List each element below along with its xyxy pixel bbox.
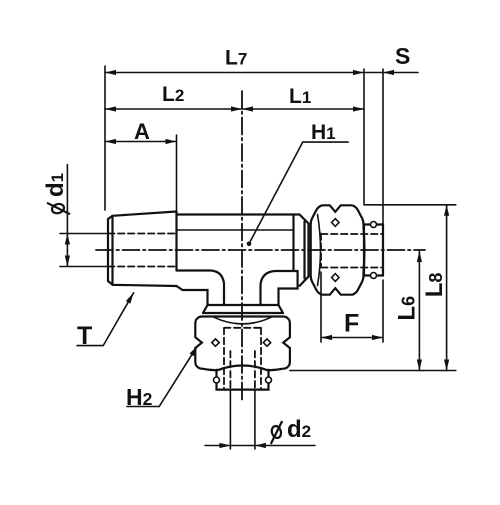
dimension L8 line bbox=[446, 205, 448, 371]
horizontal centerline (run axis) bbox=[96, 249, 425, 251]
leader line T bbox=[77, 293, 134, 346]
right sleeve (tube stop) bbox=[364, 225, 383, 276]
arrow L2 left bbox=[105, 106, 116, 111]
arrow A left bbox=[105, 139, 116, 144]
arrow F left bbox=[321, 335, 332, 340]
hidden bore lines (run, phi d1) bbox=[108, 234, 177, 267]
svg-text:T: T bbox=[77, 322, 92, 350]
bottom sleeve (tube stop) bbox=[217, 370, 269, 390]
dimension L2 L1 line bbox=[105, 108, 364, 110]
svg-text:L1: L1 bbox=[289, 85, 311, 108]
arrow L8 up bbox=[444, 205, 449, 216]
dimension F line bbox=[321, 272, 383, 342]
nut H1 hidden tube-stop face bbox=[320, 234, 322, 267]
extension line left (x=105) bbox=[104, 66, 106, 210]
svg-text:A: A bbox=[134, 119, 150, 144]
svg-text:L2: L2 bbox=[162, 83, 184, 106]
branch engagement (bottom port thread) bbox=[203, 305, 283, 313]
dimension L7 and S line bbox=[105, 72, 418, 74]
phi d1 dimension lines bbox=[60, 165, 108, 267]
bottom reference line bbox=[290, 370, 456, 372]
collar bottom (left of branch) bbox=[177, 286, 208, 305]
arrow L1 right bbox=[353, 106, 364, 111]
arrow F right bbox=[372, 335, 383, 340]
nut H2 (bottom compression nut) bbox=[195, 317, 290, 371]
label phi d2 bbox=[270, 416, 311, 444]
svg-text:H1: H1 bbox=[311, 121, 336, 144]
nut H1 (right compression nut) bbox=[311, 205, 365, 294]
arrow leader H2 bbox=[190, 344, 200, 356]
label L8 (rotated) bbox=[421, 273, 448, 298]
arrow L2 right at centerline bbox=[231, 106, 242, 111]
svg-text:F: F bbox=[344, 310, 359, 338]
arrow L7 left bbox=[105, 70, 116, 75]
svg-text:L7: L7 bbox=[225, 47, 247, 70]
arrow L8 down bbox=[444, 360, 449, 371]
nut H2 hidden tube hole bbox=[224, 328, 261, 390]
vertical centerline (branch axis) bbox=[241, 91, 243, 402]
nut H2 hex corner diamonds bbox=[212, 339, 271, 346]
dimension A line bbox=[105, 141, 177, 143]
arrow S left-pointing bbox=[383, 70, 394, 75]
arrow phi d1 up bbox=[65, 234, 70, 245]
body lower edge + left fillet into branch bbox=[177, 271, 225, 306]
nut H1 hex corner diamonds bbox=[332, 219, 339, 282]
svg-text:L6: L6 bbox=[394, 296, 421, 321]
nut H2 inner dome arcs bbox=[214, 317, 271, 324]
leader line H1 with dot bbox=[249, 142, 348, 244]
branch bore hidden lines (phi d2) bbox=[230, 351, 255, 390]
top right reference line bbox=[365, 204, 456, 206]
arrow phi d2 left outside bbox=[219, 443, 230, 448]
step between branch and right port bbox=[279, 271, 298, 305]
arrow L1 left at centerline bbox=[242, 106, 253, 111]
extension line A right (x=176.5) bbox=[176, 135, 178, 212]
extension line nut face (x=364) bbox=[363, 69, 365, 205]
svg-text:L8: L8 bbox=[421, 273, 448, 298]
leader line H2 bbox=[127, 346, 198, 407]
arrow phi d1 down bbox=[65, 256, 70, 267]
arrow L6 up bbox=[417, 251, 422, 262]
svg-text:S: S bbox=[395, 43, 410, 69]
arrow leader T bbox=[126, 292, 136, 304]
male taper thread T (left) bbox=[108, 212, 177, 287]
arrow A right bbox=[166, 139, 177, 144]
right engagement (right port thread) bbox=[294, 215, 309, 286]
right sleeve circles bbox=[371, 222, 377, 228]
extension line sleeve end (x=383) bbox=[382, 69, 384, 225]
label phi d1 (rotated) bbox=[42, 173, 70, 215]
hidden tube hole lines (right nut) bbox=[321, 234, 383, 268]
nut H1 inner dome arcs bbox=[318, 215, 321, 286]
arrowheads bbox=[65, 70, 449, 448]
body top edge bbox=[177, 213, 300, 215]
arrow L7 right bbox=[353, 70, 364, 75]
bottom sleeve circles bbox=[214, 377, 220, 383]
body counterbore upper line bbox=[177, 229, 294, 231]
body lower edge right side + right fillet bbox=[261, 271, 298, 305]
dimension L6 line bbox=[418, 251, 420, 371]
phi d2 dimension line bbox=[205, 390, 315, 449]
arrow L6 down bbox=[417, 360, 422, 371]
label L6 (rotated) bbox=[394, 296, 421, 321]
arrow phi d2 right outside bbox=[255, 443, 266, 448]
